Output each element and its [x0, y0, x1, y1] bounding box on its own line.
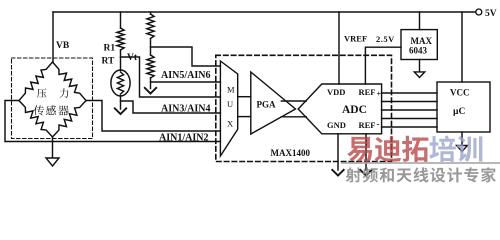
svg-text:MAX: MAX — [411, 36, 433, 46]
op-amp PGA — [251, 72, 296, 134]
svg-text:+: + — [377, 90, 382, 99]
sensor dashed enclosure — [12, 58, 93, 139]
wire digital bus line 1 — [382, 92, 437, 94]
watermark 易迪拓培训 — [347, 137, 372, 162]
svg-text:ADC: ADC — [342, 104, 367, 116]
wire bridge left output to AIN2 — [5, 101, 220, 142]
wire VREF drop to ADC VDD — [338, 12, 340, 84]
wire VB drop — [52, 12, 54, 62]
svg-text:GND: GND — [327, 120, 346, 130]
wire PGA to ADC (-) — [281, 116, 306, 118]
ground (RT) — [115, 108, 126, 114]
resistor divider upper — [147, 14, 154, 39]
wire divider branch drop — [150, 12, 152, 14]
svg-text:6043: 6043 — [409, 46, 428, 56]
mux U1a MUX — [220, 61, 237, 156]
svg-text:U: U — [227, 99, 233, 109]
svg-text:-: - — [377, 119, 380, 129]
svg-text:MAX1400: MAX1400 — [271, 148, 311, 158]
svg-text:VCC: VCC — [450, 88, 470, 98]
ground (ADC GND) — [332, 170, 343, 176]
ground (bridge) — [46, 158, 59, 166]
svg-text:VREF: VREF — [344, 34, 367, 44]
adc ADC pentagon — [298, 84, 381, 134]
wire 5V drop to MAX6043 — [419, 12, 421, 30]
svg-text:REF: REF — [359, 120, 376, 130]
watermark 射频和天线设计专家 — [346, 167, 361, 182]
resistor bridge top-right arm — [53, 62, 87, 101]
svg-text:M: M — [227, 85, 235, 95]
resistor R1 — [117, 28, 124, 50]
svg-text:2.5V: 2.5V — [376, 34, 395, 44]
wire 2.5V reference to REF+ — [365, 47, 401, 84]
svg-text:AIN5/AIN6: AIN5/AIN6 — [161, 70, 210, 81]
svg-text:REF: REF — [359, 87, 376, 97]
resistor bridge bottom-right arm — [53, 101, 87, 138]
wire 5V drop to uC VCC — [461, 12, 463, 82]
wire digital bus line 2 — [382, 101, 437, 103]
ground (MAX6043) — [414, 72, 425, 78]
wire PGA to ADC (+) — [281, 100, 306, 102]
wire R1 branch drop — [120, 12, 122, 28]
wire RT bottom to AIN4 — [121, 101, 221, 113]
resistor divider lower — [147, 55, 154, 78]
wire MUX to PGA (-) — [238, 116, 251, 118]
svg-text:RT: RT — [102, 57, 116, 67]
wire REF- pin to ground — [365, 134, 367, 170]
terminal 5V — [476, 9, 482, 15]
wire bridge right output to AIN1 — [86, 101, 220, 132]
ground (divider) — [145, 88, 156, 94]
svg-text:X: X — [227, 119, 233, 129]
wire AIN6 — [151, 81, 221, 83]
wire divider mid — [150, 39, 152, 56]
wire uC to ground — [461, 132, 463, 145]
thermistor RT — [111, 70, 130, 96]
svg-text:µC: µC — [453, 107, 465, 117]
wire +5V top rail — [53, 11, 476, 13]
wire divider bottom to ground — [150, 78, 152, 89]
svg-text:R1: R1 — [104, 44, 116, 54]
resistor bridge top-left arm — [19, 62, 53, 101]
svg-text:Vt: Vt — [127, 53, 138, 63]
wire digital bus line 3 — [382, 109, 437, 111]
voltage reference U2 MAX6043 — [401, 30, 437, 60]
ground (uC) — [457, 146, 468, 152]
wire Vt to AIN3 — [121, 57, 221, 97]
chip dashed enclosure MAX1400 — [216, 55, 392, 161]
wire divider tap to AIN5 — [151, 47, 221, 66]
wire digital bus line 4 — [382, 118, 437, 120]
wire R1 to RT (node Vt) — [120, 50, 122, 71]
wire digital bus line 5 — [382, 126, 437, 128]
watermark underline — [341, 162, 500, 164]
svg-text:5V: 5V — [485, 9, 497, 19]
svg-text:AIN1/AIN2: AIN1/AIN2 — [159, 133, 208, 144]
label 传感器 (sensor) — [34, 105, 44, 115]
svg-text:PGA: PGA — [257, 100, 276, 110]
ground (ADC REF-) — [360, 170, 371, 176]
wire MUX to PGA (+) — [238, 96, 251, 98]
svg-text:AIN3/AIN4: AIN3/AIN4 — [161, 104, 210, 115]
wire RT bottom to ground — [120, 96, 122, 110]
wire GND pin to ground — [337, 134, 339, 170]
label 压力 (pressure) — [37, 88, 47, 97]
resistor bridge bottom-left arm — [19, 101, 53, 138]
microcontroller U3 uC box — [437, 82, 490, 132]
wire bridge bottom to ground — [52, 137, 54, 159]
wire MAX6043 to ground — [419, 60, 421, 72]
svg-text:VB: VB — [56, 41, 70, 51]
svg-text:VDD: VDD — [327, 87, 345, 97]
